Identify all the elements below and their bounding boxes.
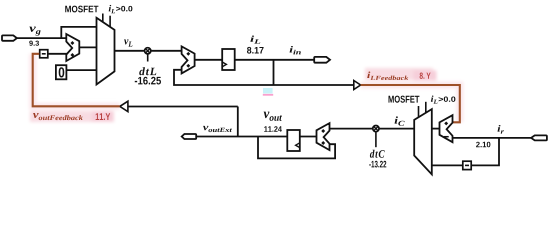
label iL greater 0.0 cond 2 <box>431 96 456 104</box>
value label 11.Y <box>96 113 111 120</box>
wire dtL node to sum block A2 <box>151 50 183 52</box>
wire minus B2 to mux U2 <box>432 164 463 166</box>
inport ir <box>531 135 547 140</box>
wire vg to sum block A1 <box>17 37 67 39</box>
label MOSFET 1 <box>65 6 98 13</box>
memory block M1 <box>222 49 235 70</box>
label iL greater 0.0 cond 1 <box>109 5 133 13</box>
highlight glow around vOutFeedback net <box>30 54 120 122</box>
wire iLFeedback red net <box>361 85 460 122</box>
value label 11.24 <box>264 126 282 132</box>
label dtC <box>370 150 385 158</box>
gain -1 block B1 <box>40 50 48 58</box>
gain -1 block B2 <box>463 161 471 169</box>
wire sum A1 to mux input 2 <box>79 46 97 48</box>
wire vout feedback loop to sum A4 <box>258 137 335 159</box>
value label 9.3 <box>29 41 39 46</box>
wire minus block B1 to sum block A1 <box>48 53 67 55</box>
value label 8.Y <box>420 73 431 79</box>
sum block A3 mirrored <box>440 115 453 142</box>
cyan annotation mark <box>263 88 273 94</box>
wire vout to outport voutExt <box>196 136 287 138</box>
open arrowhead iLFeedback <box>354 81 361 90</box>
label dtL <box>139 67 156 75</box>
multiplier node dtC <box>373 126 379 148</box>
outport iin <box>314 57 330 63</box>
label MOSFET 2 <box>389 96 420 103</box>
control stub MOSFET gate 2 <box>418 106 420 117</box>
wire vg branch to mux input 1 <box>61 27 97 38</box>
wire sum A2 to memory block M1 <box>195 59 223 61</box>
label iLFeedback <box>367 72 408 81</box>
open arrowhead voutFeedback <box>120 101 128 111</box>
wire constant 0 to mux input 3 <box>66 69 97 71</box>
value label -16.25 <box>135 77 161 85</box>
wire vL <box>115 50 146 52</box>
sum block A1 <box>66 34 79 61</box>
wire voutFeedback black segment <box>128 106 238 108</box>
label vg <box>29 27 40 36</box>
mux MOSFET switch U1 <box>97 18 115 85</box>
junction ir branch down to minus B2 <box>471 138 499 166</box>
memory block M2 mirrored <box>287 130 300 151</box>
junction iL feedback drop <box>273 60 275 85</box>
wire sum A3 to mux U2 <box>432 128 440 130</box>
control stub MOSFET gate 1 <box>102 14 104 23</box>
mux MOSFET switch U2 mirrored <box>414 109 432 174</box>
control stub iL condition 1 <box>109 16 111 28</box>
wire ir to sum A3 <box>453 137 532 139</box>
label voutExt <box>203 126 232 132</box>
label vout <box>264 112 282 121</box>
label iin <box>290 46 301 54</box>
wire sum A4 to memory M2 <box>300 136 317 138</box>
wire voutFeedback orange net <box>33 54 120 107</box>
junction vout feedback riser <box>237 107 239 137</box>
wire iC to multiplier dtC <box>379 128 414 130</box>
inport Vg <box>2 35 17 40</box>
highlight glow around iLFeedback net <box>361 68 460 122</box>
wire dtC node to sum A4 <box>330 128 374 130</box>
control stub iL condition 2 <box>425 102 427 113</box>
label iC <box>395 116 405 125</box>
label ir <box>498 125 504 134</box>
constant block 0 <box>56 65 67 79</box>
sum block A4 mirrored <box>317 123 330 150</box>
label vL <box>124 39 132 46</box>
label iL <box>250 36 260 44</box>
label voutFeedback <box>33 113 83 120</box>
magenta annotation mark <box>263 94 273 96</box>
wire iL to outport iin <box>235 59 315 61</box>
wire iL feedback to sum A2 lower input <box>174 70 274 85</box>
wire iL feedback to arrowhead <box>274 84 354 86</box>
value label -13.22 <box>369 161 386 168</box>
sum block A2 <box>182 46 195 73</box>
multiplier node dtL <box>145 48 151 62</box>
value label 8.17 <box>247 47 264 54</box>
outport voutExt <box>182 134 197 139</box>
value label 2.10 <box>476 142 490 148</box>
